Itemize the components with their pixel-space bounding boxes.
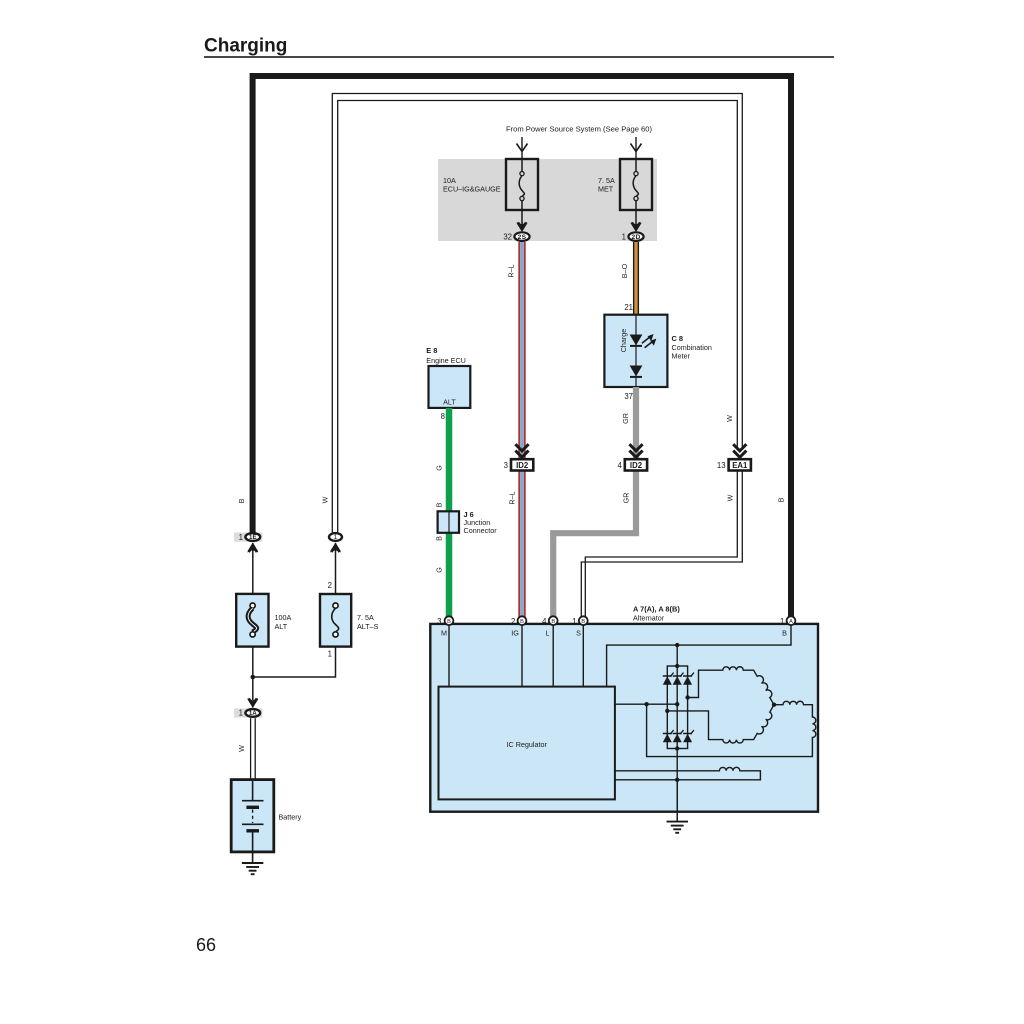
svg-text:MET: MET	[598, 185, 614, 194]
terminal 3 B (M)	[437, 616, 453, 637]
junction dot phase2 tap	[665, 709, 669, 713]
svg-text:7. 5A: 7. 5A	[357, 613, 374, 622]
junction connector J6	[438, 510, 498, 535]
svg-text:ALT–S: ALT–S	[357, 622, 379, 631]
svg-text:1: 1	[239, 709, 243, 718]
svg-text:Battery: Battery	[279, 813, 302, 822]
svg-text:ID2: ID2	[630, 461, 643, 470]
svg-text:3: 3	[437, 617, 441, 626]
label From Power Source System	[506, 125, 652, 134]
fuse 100A ALT	[236, 594, 291, 647]
svg-text:G: G	[435, 465, 444, 471]
svg-text:3: 3	[504, 461, 508, 470]
connector 1 (ALT-S branch)	[329, 533, 342, 552]
title Charging	[204, 36, 834, 58]
svg-text:ECU–IG&GAUGE: ECU–IG&GAUGE	[443, 185, 501, 194]
lead M to regulator	[448, 625, 450, 687]
svg-text:S: S	[576, 629, 581, 638]
svg-text:W: W	[726, 494, 735, 501]
fuse 10A ECU-IG&GAUGE	[443, 159, 538, 210]
lead L to regulator	[552, 625, 554, 687]
stator phase 2 winding	[667, 705, 774, 743]
stator phase 3 winding	[647, 701, 816, 756]
svg-text:4: 4	[617, 461, 622, 470]
svg-text:B–O: B–O	[620, 263, 629, 278]
junction dot rectifier top	[675, 664, 679, 668]
svg-text:32: 32	[503, 233, 512, 242]
engine ECU E8	[426, 346, 470, 408]
lead IG to regulator	[521, 625, 523, 687]
battery	[231, 780, 301, 852]
svg-text:Charge: Charge	[619, 329, 628, 353]
stator phase 1 winding	[688, 667, 774, 705]
rotor field winding	[615, 767, 761, 779]
wire R-L from ID2 to alternator IG	[508, 471, 525, 618]
charge indicator LED D1	[630, 334, 657, 348]
terminal 1 B (S)	[572, 616, 587, 637]
svg-text:R–L: R–L	[507, 264, 516, 277]
svg-text:Alternator: Alternator	[633, 614, 665, 623]
svg-text:M: M	[441, 629, 447, 638]
svg-text:2D: 2D	[631, 234, 640, 241]
wire regulator to rectifier mid	[615, 703, 677, 705]
page number 66	[196, 935, 216, 955]
svg-text:B: B	[435, 536, 444, 541]
svg-text:1: 1	[239, 533, 243, 542]
svg-text:1: 1	[572, 617, 576, 626]
wire from power source into fuse ECU-IG	[517, 137, 528, 159]
ground alternator	[667, 780, 689, 833]
svg-text:B: B	[237, 498, 246, 503]
svg-text:Connector: Connector	[464, 526, 498, 535]
svg-text:E 8: E 8	[426, 346, 437, 355]
fuse box grey band	[438, 159, 657, 241]
svg-text:A: A	[789, 619, 793, 625]
junction dot rectifier bottom	[675, 746, 679, 750]
svg-text:ALT: ALT	[275, 622, 288, 631]
svg-text:R–L: R–L	[508, 491, 517, 504]
connector 1A	[234, 698, 262, 718]
fuse 7.5A MET	[598, 159, 652, 210]
junction dot B bus	[675, 643, 679, 647]
wire W from 1A to battery (double line)	[237, 718, 255, 779]
svg-text:Engine ECU: Engine ECU	[426, 356, 466, 365]
diode D2 in meter	[630, 366, 643, 377]
lead S to regulator	[582, 625, 584, 687]
svg-text:100A: 100A	[275, 613, 292, 622]
svg-text:Meter: Meter	[672, 352, 691, 361]
connector 2S	[503, 210, 529, 242]
label W on left white wire	[321, 496, 330, 503]
wire GR from ID2 to alternator L	[553, 471, 636, 618]
svg-text:B: B	[581, 619, 585, 625]
connector EA1 pin 13	[717, 444, 751, 470]
svg-text:IC Regulator: IC Regulator	[507, 740, 548, 749]
svg-text:EA1: EA1	[732, 461, 748, 470]
svg-text:IG: IG	[511, 629, 519, 638]
svg-text:1A: 1A	[249, 710, 257, 717]
svg-text:66: 66	[196, 935, 216, 955]
wire W top loop (double line)	[332, 94, 742, 534]
connector ID2 pin 3	[504, 444, 534, 470]
svg-text:B: B	[551, 619, 555, 625]
wire B thick main (left/top/right frame)	[253, 76, 791, 617]
lead B to rectifier bus	[607, 625, 791, 687]
rectifier frame	[667, 666, 687, 749]
svg-text:A 7(A), A 8(B): A 7(A), A 8(B)	[633, 605, 680, 614]
label B on right thick wire	[777, 497, 786, 502]
svg-text:B: B	[435, 502, 444, 507]
svg-text:Charging: Charging	[204, 36, 287, 57]
svg-text:2S: 2S	[518, 234, 527, 241]
label W above EA1	[725, 415, 734, 422]
svg-text:1E: 1E	[249, 534, 257, 541]
svg-text:1: 1	[780, 617, 784, 626]
svg-text:2: 2	[328, 581, 332, 590]
junction dot Y center	[772, 703, 776, 707]
svg-text:L: L	[546, 629, 550, 638]
IC regulator box	[439, 687, 615, 800]
junction dot S-node	[644, 702, 648, 706]
junction dot phase1 tap	[685, 695, 689, 699]
diodes upper row	[663, 673, 694, 685]
svg-text:W: W	[321, 496, 330, 503]
wire 1 to fuse ALT-S	[328, 543, 336, 594]
wire fuse ALT-S branch to junction	[253, 647, 336, 677]
wire W from EA1 to alternator S (double line)	[581, 471, 742, 618]
svg-text:G: G	[435, 567, 444, 573]
wire GR from meter to ID2	[621, 387, 636, 459]
svg-text:8: 8	[441, 412, 445, 421]
svg-text:From Power Source System (See: From Power Source System (See Page 60)	[506, 125, 652, 134]
svg-text:B: B	[782, 629, 787, 638]
wire G from ECU to alternator M	[435, 408, 450, 617]
svg-text:37: 37	[624, 392, 633, 401]
wire fuse ALT to node junction	[252, 647, 254, 700]
svg-text:4: 4	[542, 617, 547, 626]
connector ID2 pin 4	[617, 444, 647, 470]
ground battery	[242, 852, 263, 874]
svg-text:21: 21	[624, 303, 633, 312]
svg-text:ID2: ID2	[516, 461, 529, 470]
rectifier center column	[676, 645, 678, 821]
wire R-L from 2S to ID2	[507, 242, 525, 459]
svg-text:2: 2	[511, 617, 515, 626]
svg-text:B: B	[777, 497, 786, 502]
svg-text:ALT: ALT	[443, 398, 456, 407]
junction dot rotor/ground	[675, 778, 679, 782]
wire 1E to fuse ALT	[252, 543, 254, 594]
terminal 4 B (L)	[542, 616, 557, 637]
connector 1E	[234, 533, 262, 553]
label B on left thick wire	[237, 498, 246, 503]
terminal 1 A (B)	[780, 616, 795, 637]
svg-text:13: 13	[717, 461, 726, 470]
wire from power source into fuse MET	[631, 137, 642, 159]
svg-text:GR: GR	[621, 413, 630, 424]
combination meter C8	[604, 315, 711, 387]
diodes lower row	[663, 730, 694, 742]
svg-text:W: W	[237, 745, 246, 752]
svg-text:GR: GR	[622, 493, 631, 504]
junction dot rectifier mid	[675, 702, 679, 706]
svg-text:C 8: C 8	[672, 334, 684, 343]
svg-text:1: 1	[328, 650, 332, 659]
svg-text:B: B	[520, 619, 524, 625]
svg-text:1: 1	[334, 534, 338, 541]
connector 2D	[622, 210, 644, 242]
fuse 7.5A ALT-S	[320, 594, 379, 647]
svg-text:B: B	[447, 619, 451, 625]
svg-text:1: 1	[622, 233, 626, 242]
junction dot ALT node	[251, 675, 256, 680]
alternator A7(A) A8(B) box	[430, 605, 818, 812]
wire B-O from 2D to combination meter	[620, 242, 638, 315]
svg-text:W: W	[725, 415, 734, 422]
terminal 2 B (IG)	[511, 616, 526, 637]
